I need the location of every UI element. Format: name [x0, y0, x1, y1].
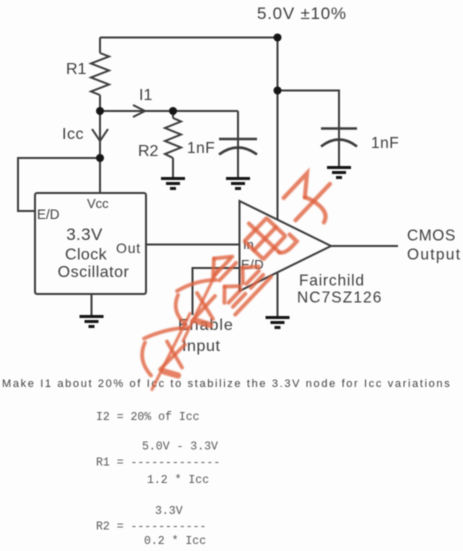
- svg-text:0.2 * Icc: 0.2 * Icc: [144, 535, 206, 548]
- svg-text:R1 = -------------: R1 = -------------: [96, 457, 220, 470]
- svg-text:Fairchild: Fairchild: [299, 273, 365, 290]
- svg-text:NC7SZ126: NC7SZ126: [297, 290, 382, 307]
- svg-text:I2 = 20% of Icc: I2 = 20% of Icc: [96, 411, 200, 424]
- svg-text:5.0V - 3.3V: 5.0V - 3.3V: [142, 441, 218, 454]
- svg-text:5.0V ±10%: 5.0V ±10%: [257, 4, 347, 23]
- svg-text:I1: I1: [139, 87, 152, 104]
- svg-text:Input: Input: [182, 338, 221, 355]
- svg-text:1nF: 1nF: [187, 140, 215, 157]
- svg-text:3.3V: 3.3V: [155, 505, 183, 518]
- svg-text:CMOS: CMOS: [407, 228, 456, 245]
- svg-text:E/D: E/D: [37, 207, 60, 222]
- svg-text:Clock: Clock: [65, 247, 108, 264]
- svg-text:R2 = -----------: R2 = -----------: [96, 521, 206, 534]
- svg-text:Make I1 about 20% of Icc to st: Make I1 about 20% of Icc to stabilize th…: [2, 378, 451, 390]
- svg-text:1.2 * Icc: 1.2 * Icc: [147, 474, 209, 487]
- svg-text:R2: R2: [138, 143, 159, 160]
- svg-text:R1: R1: [66, 61, 87, 78]
- svg-text:Out: Out: [116, 240, 141, 256]
- svg-text:1nF: 1nF: [371, 135, 399, 152]
- svg-text:Oscillator: Oscillator: [58, 264, 130, 281]
- svg-text:Icc: Icc: [62, 126, 84, 143]
- svg-text:Vcc: Vcc: [87, 196, 109, 211]
- svg-text:Output: Output: [407, 247, 461, 264]
- svg-text:3.3V: 3.3V: [66, 225, 103, 244]
